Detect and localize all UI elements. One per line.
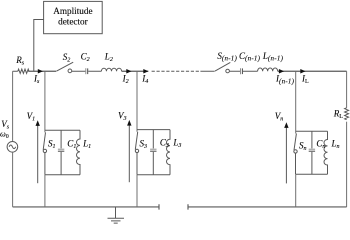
- wire left drop upper: [12, 71, 14, 141]
- capacitor Cn leg: [311, 131, 313, 148]
- switch S3 blade: [135, 132, 137, 150]
- svg-text:Sn: Sn: [299, 141, 307, 153]
- svg-text:Rs: Rs: [15, 55, 25, 67]
- svg-text:I4: I4: [141, 74, 148, 86]
- svg-text:Cn: Cn: [316, 139, 325, 151]
- arrow V3 shaft: [128, 125, 130, 182]
- svg-text:Vs: Vs: [1, 119, 10, 131]
- svg-text:I2: I2: [122, 74, 129, 86]
- arrowhead I2: [126, 69, 131, 74]
- arrowhead IL: [300, 69, 305, 74]
- tank n bottom bar: [296, 173, 328, 175]
- arrowhead V3: [127, 120, 131, 126]
- svg-text:detector: detector: [58, 16, 88, 26]
- wire branch 3 upper: [136, 71, 138, 131]
- wire rail right segment: [278, 70, 347, 72]
- svg-text:V3: V3: [118, 111, 127, 123]
- inductor L3: [167, 130, 171, 175]
- switch S(n-1) blade: [215, 62, 230, 71]
- wire to L(n-1): [243, 70, 258, 72]
- wire branch 3 lower: [136, 175, 138, 207]
- source sine wave: [9, 145, 16, 149]
- arrowhead V1: [36, 120, 40, 126]
- capacitor C2: [85, 68, 87, 74]
- svg-text:C(n-1): C(n-1): [239, 51, 261, 63]
- switch S1 contact: [43, 149, 46, 152]
- inductor L2: [101, 68, 121, 71]
- svg-text:I(n-1): I(n-1): [275, 74, 295, 86]
- svg-text:C1: C1: [67, 139, 76, 151]
- arrowhead Is: [38, 69, 43, 74]
- svg-text:RL: RL: [333, 108, 344, 120]
- wire branch 3 below switch: [136, 153, 138, 175]
- arrow Vn shaft: [285, 128, 287, 184]
- wire right drop upper: [346, 71, 348, 108]
- wire branch 1 below switch: [44, 153, 46, 175]
- switch S1 blade: [43, 132, 45, 149]
- wire bottom rail right segment with break tick: [188, 204, 347, 209]
- inductor L(n-1): [258, 68, 278, 71]
- wire dashes to Sn-1: [200, 70, 214, 72]
- wire branch n below switch: [295, 153, 297, 174]
- wire branch n lower: [295, 174, 297, 207]
- amplitude detector box: [44, 1, 103, 33]
- svg-text:S(n-1): S(n-1): [217, 51, 237, 63]
- tank1 bottom bar: [45, 174, 80, 176]
- svg-text:Ln: Ln: [331, 139, 340, 151]
- arrowhead Vn: [284, 122, 288, 128]
- resistor Rs: [18, 69, 29, 73]
- switch S2 contact: [68, 69, 72, 73]
- wire rail Rs to S2: [28, 70, 56, 72]
- switch S2 blade: [57, 62, 74, 71]
- svg-text:L1: L1: [82, 139, 91, 151]
- capacitor C(n-1): [240, 68, 242, 74]
- arrowhead I(n-1): [279, 69, 284, 74]
- svg-text:S2: S2: [63, 52, 71, 64]
- svg-text:V1: V1: [27, 111, 35, 123]
- tank1 top bar: [45, 129, 80, 131]
- wire amplitude detector tap: [34, 20, 44, 72]
- svg-text:S1: S1: [48, 139, 56, 151]
- svg-text:L3: L3: [172, 138, 181, 150]
- svg-text:Amplitude: Amplitude: [53, 6, 92, 16]
- switch Sn contact: [294, 150, 297, 153]
- svg-text:L(n-1): L(n-1): [262, 51, 284, 63]
- source Vs circle: [7, 142, 18, 153]
- tank3 top bar: [137, 129, 170, 131]
- wire dashed omitted section: [152, 70, 201, 72]
- inductor Ln: [324, 131, 328, 174]
- resistor RL: [345, 108, 349, 120]
- capacitor C3 leg: [152, 130, 154, 149]
- svg-text:Vn: Vn: [275, 111, 284, 123]
- switch S3 contact: [135, 149, 138, 152]
- capacitor C1 leg: [60, 130, 62, 148]
- wire branch 1 lower: [44, 175, 46, 207]
- arrowhead I4: [143, 69, 148, 74]
- inductor L1: [77, 130, 81, 174]
- wire bottom rail left segment with break tick: [13, 204, 159, 209]
- svg-text:L2: L2: [104, 51, 113, 63]
- wire S2 to C2: [72, 70, 86, 72]
- svg-text:IL: IL: [301, 74, 309, 86]
- svg-text:ω0: ω0: [0, 130, 9, 141]
- svg-text:C2: C2: [81, 51, 90, 63]
- wire left drop lower: [12, 152, 14, 207]
- tank3 bottom bar: [137, 174, 170, 176]
- arrow V1 shaft: [37, 126, 39, 184]
- switch S(n-1) contact: [226, 69, 230, 73]
- wire branch n upper: [295, 71, 297, 133]
- ground: [108, 207, 125, 223]
- wire top rail left stub: [13, 70, 18, 72]
- wire right drop lower: [346, 122, 348, 207]
- svg-text:S3: S3: [140, 139, 148, 151]
- wire L2 to I4: [122, 70, 149, 72]
- wire to C(n-1): [230, 70, 241, 72]
- tank n top bar: [296, 130, 328, 132]
- svg-text:Is: Is: [33, 74, 40, 86]
- wire C2 to L2: [88, 70, 101, 72]
- switch Sn blade: [294, 134, 296, 151]
- wire branch 1 upper: [44, 71, 46, 132]
